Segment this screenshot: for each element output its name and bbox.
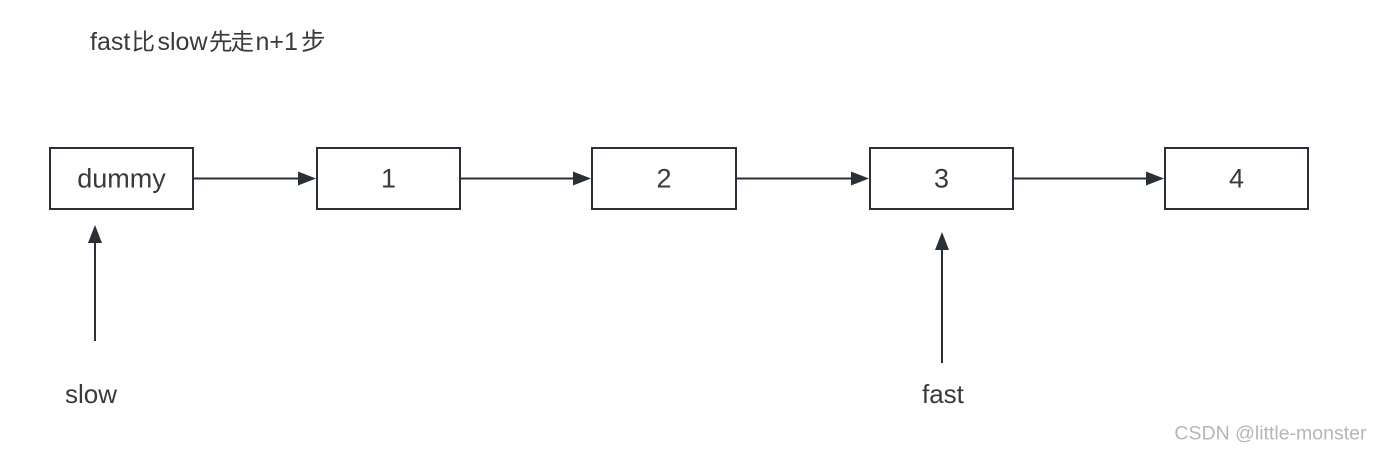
node box "2": [592, 148, 736, 209]
svg-text:3: 3: [934, 164, 949, 194]
svg-text:CSDN @little-monster: CSDN @little-monster: [1174, 423, 1367, 445]
wire arrow 3-to-4: [1014, 172, 1164, 186]
svg-text:2: 2: [656, 164, 671, 194]
title text "fast比slow先走n+1步": [90, 28, 324, 56]
node box "1": [317, 148, 460, 209]
node box "3": [870, 148, 1013, 209]
pointer arrow fast-pointer: [935, 232, 949, 363]
wire arrow dummy-to-1: [194, 172, 316, 186]
wire arrow 1-to-2: [461, 172, 591, 186]
wire arrow 2-to-3: [737, 172, 869, 186]
svg-text:slow: slow: [158, 28, 209, 56]
svg-text:dummy: dummy: [77, 164, 166, 194]
node box "4": [1165, 148, 1308, 209]
svg-text:slow: slow: [65, 379, 117, 409]
node box "dummy": [50, 148, 193, 209]
svg-text:fast: fast: [922, 379, 965, 409]
svg-text:fast: fast: [90, 28, 130, 56]
svg-text:1: 1: [381, 164, 396, 194]
svg-text:4: 4: [1229, 164, 1244, 194]
pointer arrow slow-pointer: [88, 225, 102, 341]
svg-text:n+1: n+1: [256, 28, 298, 56]
